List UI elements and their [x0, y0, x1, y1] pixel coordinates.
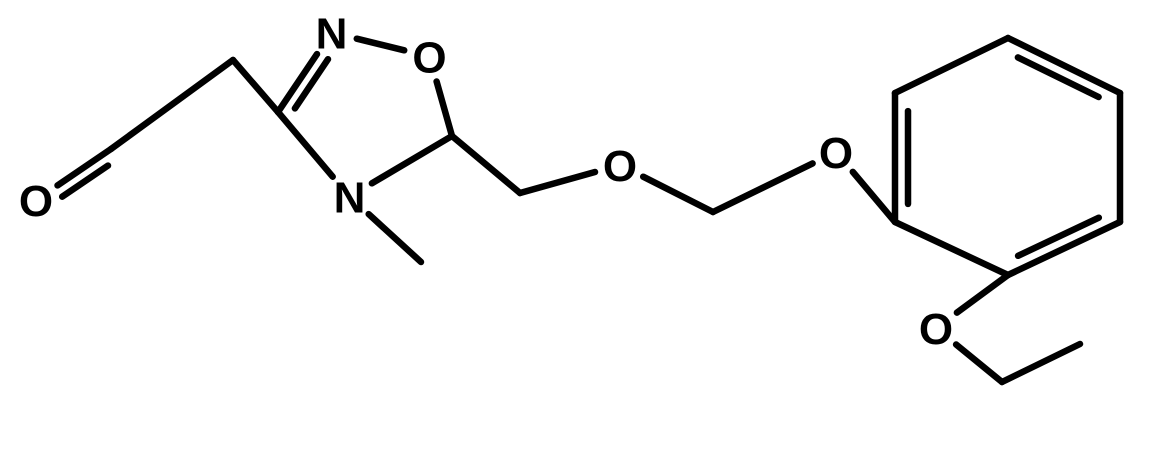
svg-text:O: O [19, 177, 53, 226]
benzene double bond C2=C3 [1008, 38, 1120, 93]
svg-text:N: N [334, 173, 366, 222]
oxadiazoline ring double bond C3=N2 [278, 54, 317, 112]
benzene bond C3-C4 [1117, 93, 1124, 222]
ring bond C5-N4 [372, 136, 452, 183]
benzene bond C5-C6 [895, 222, 1008, 275]
svg-text:O: O [819, 129, 853, 178]
ring bond N2-O1 [357, 39, 404, 51]
benzene double bond C6=C1 [892, 93, 899, 222]
bond N4-CH3 methyl [369, 214, 421, 262]
benzene bond C1-C2 [895, 38, 1008, 93]
aldehyde C=O double bond [58, 149, 112, 185]
bond C(=O)-CH2 chain [111, 60, 233, 149]
svg-text:O: O [412, 33, 446, 82]
bond CH2-O phenoxy [713, 163, 813, 212]
bond CH2-C3(ring) [233, 60, 278, 112]
ring bond O1-C5 [437, 82, 452, 137]
bond O-CH2 ethyl [956, 345, 1002, 383]
bond O-C6 aryl [853, 172, 895, 222]
benzene double bond C4=C5 [1008, 222, 1120, 275]
bond C5(aryl)-O ethoxy [957, 275, 1008, 313]
bond CH2-CH3 ethyl [1002, 344, 1080, 382]
svg-text:O: O [603, 142, 637, 191]
bond C5-CH2 [452, 136, 520, 193]
bond CH2-O ether [520, 172, 595, 193]
bond O-CH2 ether [643, 177, 713, 212]
ring bond C3-N4 [278, 112, 333, 177]
svg-text:N: N [316, 9, 348, 58]
svg-text:O: O [919, 305, 953, 354]
